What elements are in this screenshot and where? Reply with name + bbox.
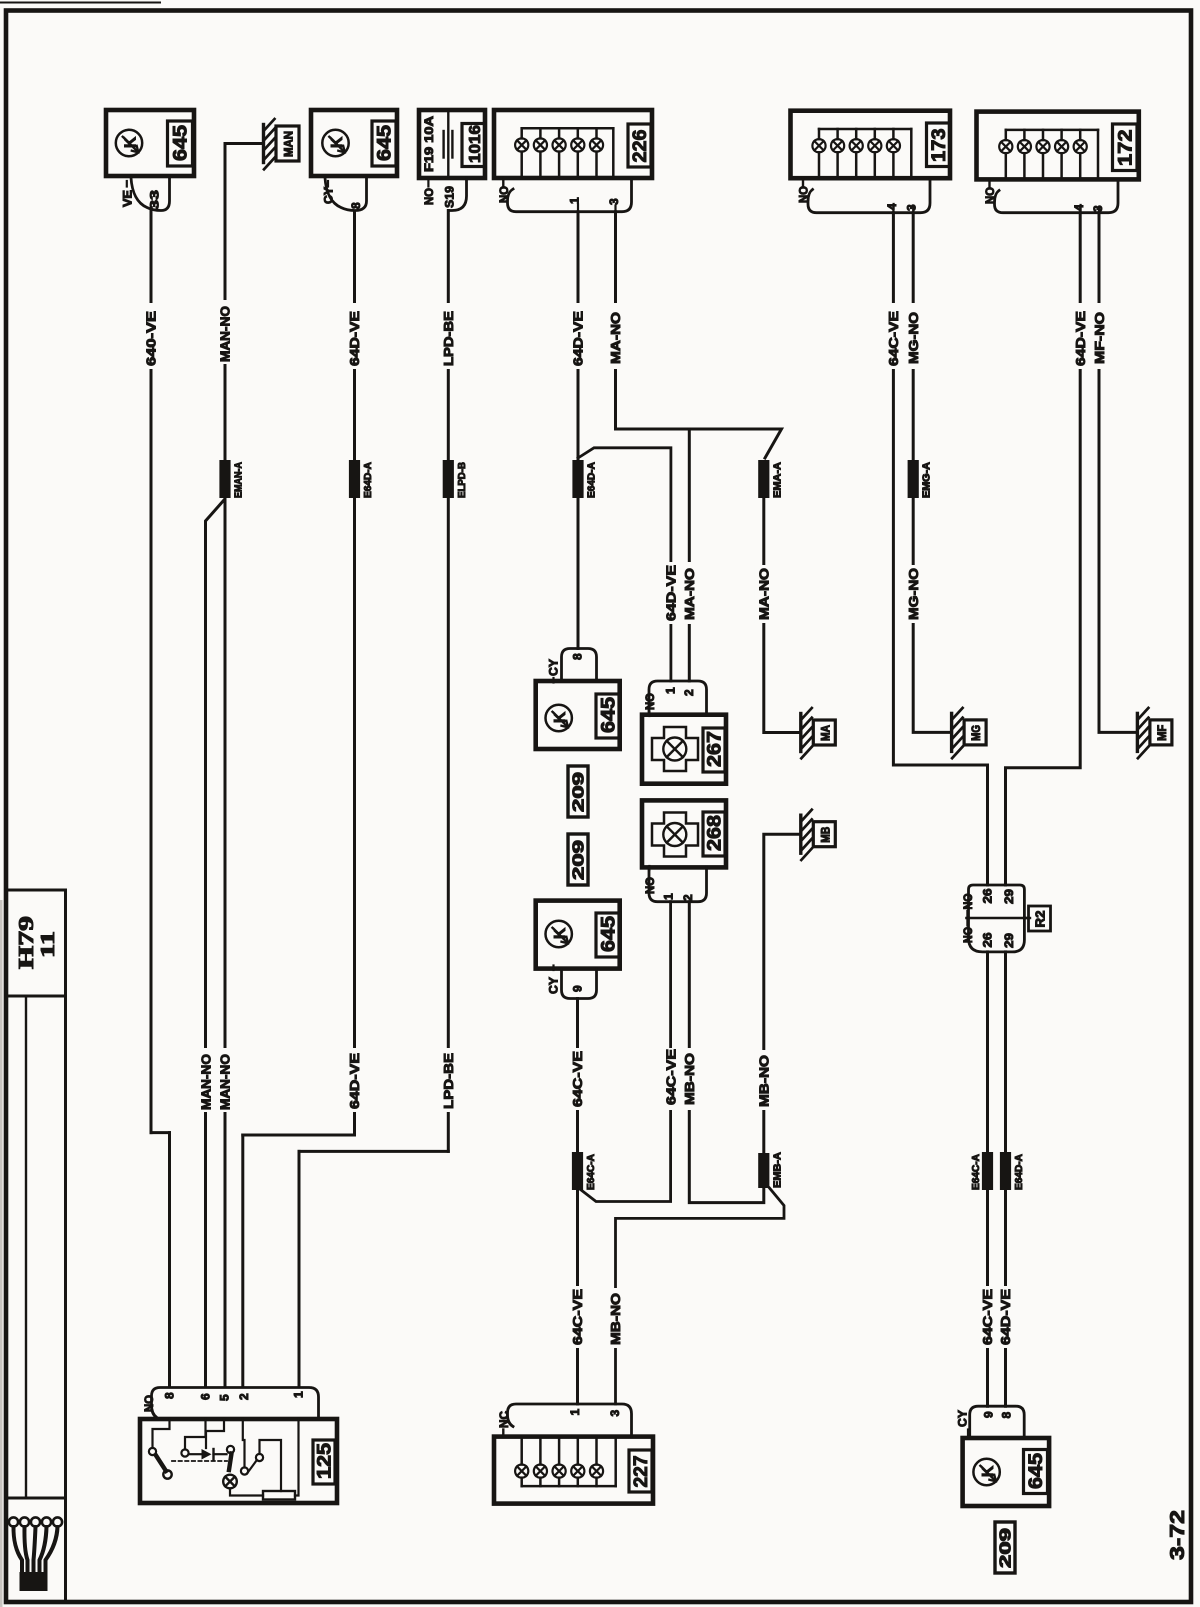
svg-text:LPD-BE: LPD-BE [441, 1053, 456, 1109]
ground MA [799, 714, 802, 752]
svg-text:4: 4 [1072, 204, 1086, 211]
svg-text:R2: R2 [1033, 910, 1047, 927]
connector 227 (lamp cluster) [494, 1437, 653, 1504]
svg-text:26: 26 [980, 888, 994, 903]
svg-text:1: 1 [568, 197, 582, 204]
svg-text:1: 1 [568, 1409, 582, 1416]
connector bracket CY-9 of U4 [562, 969, 597, 999]
svg-text:H79: H79 [14, 916, 38, 969]
svg-text:F19 10A: F19 10A [424, 116, 436, 172]
svg-text:E64D-A: E64D-A [363, 462, 374, 498]
wire branch 64D-VE from splice E64D-A to lamp 267 pin 1 [578, 448, 671, 681]
svg-text:267: 267 [704, 731, 725, 767]
lamp 268 (side repeater) [642, 800, 726, 867]
component U4 645 (pin CY-9, bottom) [536, 901, 620, 969]
svg-text:MB-NO: MB-NO [757, 1055, 772, 1107]
svg-text:209: 209 [571, 771, 588, 812]
svg-text:268: 268 [704, 815, 725, 851]
svg-text:8: 8 [349, 202, 363, 209]
svg-text:29: 29 [1002, 933, 1016, 948]
svg-text:64D-VE: 64D-VE [571, 311, 586, 366]
wire 64C-VE from U4 pin 9 to 227 pin 1 [576, 999, 579, 1405]
svg-text:26: 26 [980, 932, 994, 947]
svg-text:645: 645 [1026, 1453, 1047, 1489]
svg-text:MAN-NO: MAN-NO [198, 1054, 213, 1110]
svg-text:9: 9 [571, 985, 585, 992]
splice E64D-A on 226 pin 1 wire [572, 460, 583, 498]
splice E64D-A (right branch) [1000, 1152, 1011, 1190]
wire MF-NO from 172 pin 3 to ground MF [1099, 213, 1137, 733]
wire MA-NO from splice EMA-A to ground MA [764, 498, 800, 733]
svg-text:S19: S19 [443, 186, 457, 208]
svg-text:645: 645 [598, 697, 619, 733]
wire MG-NO from 173 pin 3 to ground MG [913, 213, 951, 733]
bracket NO of 173 with pins 4,3 [802, 178, 804, 186]
wire MB-NO from splice EMB-A to lamp 268 pin 2 [689, 902, 764, 1203]
connector 226 (lamp cluster) [494, 110, 652, 178]
svg-text:2: 2 [682, 689, 696, 696]
svg-text:1016: 1016 [467, 125, 484, 163]
wire 64D-VE from R2 pin 29 to U5 645 pin 8 [1004, 952, 1007, 1406]
svg-text:MAN: MAN [284, 131, 296, 157]
wire LPD-BE from fuse S19 to 125 pin 1 [447, 211, 450, 1152]
svg-text:173: 173 [929, 129, 950, 163]
125 internals: switch contacts, diode, lamp, resistor [153, 1419, 170, 1448]
svg-text:1: 1 [664, 687, 678, 694]
svg-text:640-VE: 640-VE [144, 311, 159, 366]
splice EMB-A [758, 1153, 769, 1188]
connector bracket S19 of fuse F19 [449, 178, 467, 211]
svg-text:64D-VE: 64D-VE [1073, 311, 1088, 366]
svg-text:11: 11 [37, 931, 59, 958]
fuse F19 10A (box 1016) [419, 110, 485, 178]
svg-text:645: 645 [171, 125, 192, 161]
component U1 645 (instrument unit, pin VE-33) [106, 110, 194, 176]
bracket NC of 227 with pins 1,3 [502, 1430, 504, 1438]
component U3 645 (pin CY-8, top) [562, 649, 597, 682]
svg-text:64C-VE: 64C-VE [570, 1051, 585, 1107]
svg-text:NO: NO [645, 877, 657, 894]
svg-text:MAN-NO: MAN-NO [218, 1054, 233, 1110]
svg-text:CY: CY [958, 1410, 970, 1427]
svg-text:5: 5 [218, 1394, 232, 1401]
lamp 267 (side repeater) [649, 681, 707, 715]
wire branch MA-NO to lamp 267 pin 2 [688, 429, 691, 681]
harness wire in band [25, 996, 27, 1498]
wire 64D-VE from 226 pin 1 to U3 645 pin CY-8 [577, 212, 580, 649]
svg-text:64C-VE: 64C-VE [980, 1289, 995, 1345]
svg-text:64D-VE: 64D-VE [347, 311, 362, 366]
svg-text:MF-NO: MF-NO [1092, 312, 1107, 364]
connector 173 (lamp cluster) [791, 111, 951, 179]
splice E64C-A on wire 64C-VE [572, 1152, 583, 1190]
svg-text:3: 3 [607, 198, 621, 205]
svg-text:125: 125 [314, 1443, 335, 1479]
svg-text:NO: NO [963, 927, 975, 943]
title box H79 sheet 11 [6, 890, 66, 996]
svg-text:227: 227 [631, 1456, 652, 1488]
svg-text:64D-VE: 64D-VE [664, 565, 679, 621]
svg-text:64C-VE: 64C-VE [663, 1049, 678, 1105]
svg-text:64C-VE: 64C-VE [570, 1289, 585, 1345]
svg-text:64C-VE: 64C-VE [886, 311, 901, 366]
splice E64C-A (right branch) [982, 1152, 993, 1190]
svg-text:2: 2 [237, 1393, 251, 1400]
ground MG [950, 713, 953, 751]
wire MA-NO from 226 pin 3 [616, 212, 782, 458]
svg-text:64D-VE: 64D-VE [998, 1289, 1013, 1345]
svg-text:3-72: 3-72 [1167, 1510, 1189, 1560]
svg-text:NO: NO [144, 1395, 156, 1412]
svg-text:64D-VE: 64D-VE [347, 1053, 362, 1109]
bracket of 268 with pins 1,2 (below) [649, 867, 707, 902]
wire MB-NO from splice EMB-A to 227 pin 3 [616, 1188, 785, 1404]
svg-text:1: 1 [292, 1391, 306, 1398]
connector 172 (lamp cluster) [977, 112, 1139, 180]
svg-text:8: 8 [571, 653, 585, 660]
connector bracket VE-33 of U1 [131, 178, 170, 211]
splice ELPD-B on wire LPD-BE [443, 460, 454, 498]
svg-text:172: 172 [1115, 130, 1136, 167]
svg-text:8: 8 [1000, 1412, 1014, 1419]
svg-text:MA-NO: MA-NO [682, 568, 697, 620]
svg-text:29: 29 [1002, 889, 1016, 904]
svg-text:226: 226 [630, 130, 651, 163]
wire 64C-VE from R2 pin 26 to U5 645 pin 9 [986, 952, 989, 1406]
svg-text:9: 9 [981, 1411, 995, 1418]
label box 209 (harness ref, lower) [568, 834, 588, 885]
wire MAN-NO from ground MAN [225, 142, 264, 145]
svg-text:6: 6 [199, 1393, 213, 1400]
svg-text:3: 3 [608, 1410, 622, 1417]
connector bracket CY-8 of U2 [325, 178, 367, 211]
svg-text:33: 33 [148, 190, 162, 210]
svg-text:CY: CY [549, 659, 561, 676]
svg-text:MF: MF [1157, 725, 1169, 741]
svg-text:VE: VE [123, 190, 135, 207]
svg-text:EMA-A: EMA-A [772, 462, 783, 498]
splice EMA-A [758, 460, 769, 498]
splice E64D-A on wire 64D-VE [349, 460, 360, 498]
svg-text:MG-NO: MG-NO [906, 568, 921, 620]
component U5 645 (pins CY-9, CY-8) [970, 1406, 1024, 1438]
svg-text:EMG-A: EMG-A [922, 462, 933, 498]
wire MAN-NO from splice EMAN-A to 125 pin 6 [206, 500, 225, 1387]
svg-text:MB: MB [820, 827, 832, 843]
svg-text:MA-NO: MA-NO [608, 312, 623, 364]
splice EMG-A on wire MG-NO [908, 460, 919, 498]
wire 64C-VE from 173 pin 4 to connector R2 pin 26 [893, 213, 987, 885]
svg-text:MG: MG [971, 725, 983, 741]
component 125 (lighting switch unit) [152, 1388, 319, 1418]
svg-text:645: 645 [598, 916, 619, 952]
ground MAN [262, 125, 265, 163]
label box 209 (harness ref, upper) [568, 766, 588, 817]
wire MB-NO from ground MB to splice EMB-A [764, 834, 800, 1153]
svg-text:NO: NO [963, 893, 975, 909]
svg-text:MA: MA [820, 725, 832, 741]
svg-text:CY: CY [324, 187, 336, 204]
svg-text:MB-NO: MB-NO [682, 1053, 697, 1105]
svg-text:CY: CY [549, 977, 561, 994]
svg-text:1: 1 [662, 893, 676, 900]
svg-text:209: 209 [571, 839, 588, 880]
harness pigtail symbol [9, 1517, 18, 1526]
svg-text:NO: NO [645, 693, 657, 710]
svg-text:E64D-A: E64D-A [587, 462, 598, 498]
bracket NO of 172 with pins 4,3 [988, 179, 990, 187]
svg-text:E64C-A: E64C-A [971, 1154, 982, 1190]
svg-text:E64D-A: E64D-A [1014, 1154, 1025, 1190]
wire 640-VE from U1 pin 33 to 125 pin 8 [150, 211, 153, 1133]
wire 64D-VE from 172 pin 4 to connector R2 pin 29 [1006, 213, 1081, 885]
svg-text:2: 2 [681, 894, 695, 901]
ground MB [799, 815, 802, 853]
svg-text:8: 8 [162, 1392, 176, 1399]
ground MF [1136, 713, 1139, 751]
svg-text:MB-NO: MB-NO [608, 1293, 623, 1345]
wire MAN-NO from splice EMAN-A to 125 pin 5 [224, 498, 227, 1387]
svg-text:4: 4 [885, 203, 899, 210]
svg-text:LPD-BE: LPD-BE [441, 311, 456, 366]
svg-text:E64C-A: E64C-A [586, 1154, 597, 1190]
svg-text:EMAN-A: EMAN-A [234, 462, 245, 498]
splice EMAN-A [219, 460, 230, 498]
label box 209 (harness ref, bottom right) [995, 1522, 1015, 1573]
connector R2 (two-half inline connector, pins 26/29) [969, 885, 1025, 918]
svg-text:MAN-NO: MAN-NO [218, 306, 233, 362]
svg-text:NO: NO [424, 188, 436, 205]
svg-text:MA-NO: MA-NO [757, 568, 772, 620]
svg-text:MG-NO: MG-NO [906, 312, 921, 364]
wire branch 64C-VE from splice E64C-A to lamp 268 pin 1 [579, 902, 671, 1202]
svg-text:ELPD-B: ELPD-B [457, 462, 468, 498]
left harness band [64, 996, 67, 1601]
wire 64D-VE from U2 pin 8 to 125 pin 2 [353, 211, 356, 1135]
component U2 645 (pin CY-8) [311, 110, 397, 176]
svg-text:EMB-A: EMB-A [772, 1152, 783, 1188]
svg-text:645: 645 [375, 125, 396, 161]
svg-text:3: 3 [905, 204, 919, 211]
svg-text:209: 209 [998, 1527, 1015, 1568]
bracket NO of 226 with pins 1,3 [502, 178, 504, 186]
